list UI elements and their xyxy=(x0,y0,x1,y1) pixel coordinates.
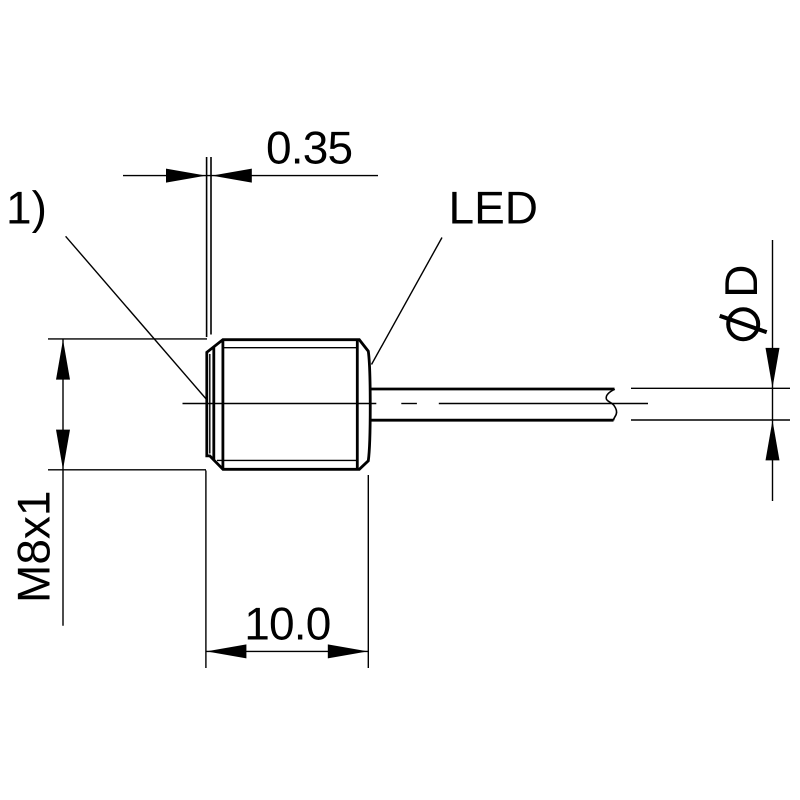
cable lower outline after break xyxy=(631,419,790,421)
diameter D arrowhead up xyxy=(766,420,780,460)
arrowhead left (points right at gap) xyxy=(166,169,206,183)
cable upper outline xyxy=(371,388,615,391)
10.0 dimension line xyxy=(206,650,368,652)
10.0 left extension line xyxy=(205,471,207,669)
M8 arrowhead down xyxy=(56,430,70,470)
body rear edge xyxy=(356,340,359,470)
sensor body outer profile xyxy=(207,340,370,470)
M8 bottom extension line xyxy=(48,469,206,471)
center line segment through body xyxy=(183,403,377,405)
thread chamfer line bottom xyxy=(217,459,356,461)
body front edge xyxy=(221,340,224,470)
diameter D dimension line xyxy=(772,240,774,501)
cable break squiggle xyxy=(606,389,616,420)
10.0 arrowhead left xyxy=(206,644,246,658)
cable lower outline xyxy=(371,419,614,422)
dimension line 0.35 xyxy=(123,175,378,177)
center line short dash xyxy=(401,403,417,405)
10.0 right extension line xyxy=(367,475,369,668)
diameter D arrowhead down xyxy=(766,348,780,388)
svg-text:M8x1: M8x1 xyxy=(8,491,60,603)
arrowhead right (points left at gap) xyxy=(212,169,252,183)
thread chamfer line top xyxy=(224,347,356,349)
leader line from 1) to sensing face xyxy=(66,236,207,399)
face/body joint edge xyxy=(212,347,215,459)
M8 top extension line xyxy=(48,338,207,340)
M8 dimension line xyxy=(62,339,64,625)
svg-text:1): 1) xyxy=(6,182,47,234)
diameter symbol slash xyxy=(720,316,767,332)
extension line right of 0.35 gap xyxy=(210,157,212,335)
svg-text:LED: LED xyxy=(449,181,538,233)
M8 arrowhead up xyxy=(56,340,70,380)
diameter symbol circle xyxy=(728,309,758,339)
10.0 arrowhead right xyxy=(328,644,368,658)
extension line left of 0.35 gap xyxy=(206,157,208,337)
svg-text:D: D xyxy=(715,265,767,298)
face chamfer thin line xyxy=(209,354,211,454)
center line long dash xyxy=(439,403,648,405)
svg-text:0.35: 0.35 xyxy=(266,122,352,174)
cable upper outline after break xyxy=(631,387,790,389)
svg-text:10.0: 10.0 xyxy=(244,598,330,650)
leader line from LED to end cap xyxy=(372,238,443,365)
